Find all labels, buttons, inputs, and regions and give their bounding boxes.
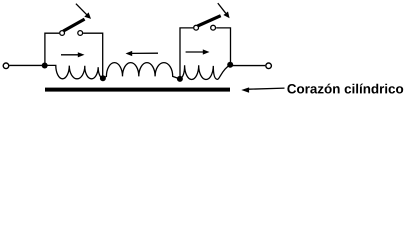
node D: [227, 62, 233, 68]
switch S1 lever: [63, 19, 84, 31]
node A: [42, 63, 48, 69]
switch S2 lever: [198, 16, 221, 26]
wire switch S2 frame: [180, 28, 231, 79]
current arrow in switch S2 loop: [186, 49, 210, 54]
node C: [177, 76, 183, 82]
annotation arrow to switch S2 lever: [218, 3, 230, 18]
inductor L2 (middle coil): [103, 63, 179, 79]
inductor L1 (left coil): [45, 65, 103, 78]
wire switch S1 frame: [45, 33, 103, 77]
label arrow to core: [241, 87, 284, 92]
cylindrical core bar: [45, 88, 230, 92]
label Corazon cilindrico: [287, 84, 403, 94]
wire left terminal to node A: [9, 64, 44, 66]
wire node D to right terminal: [230, 65, 265, 67]
switch S2 contact circles: [194, 25, 216, 30]
current arrow above inductor L2: [126, 51, 159, 56]
inductor L3 (right coil): [180, 65, 230, 80]
switch S1 contact circles: [60, 31, 83, 36]
annotation arrow to switch S1 lever: [76, 4, 91, 19]
right terminal: [266, 63, 272, 69]
current arrow in switch S1 loop: [61, 52, 85, 57]
left terminal: [3, 63, 9, 69]
node B: [100, 75, 106, 81]
